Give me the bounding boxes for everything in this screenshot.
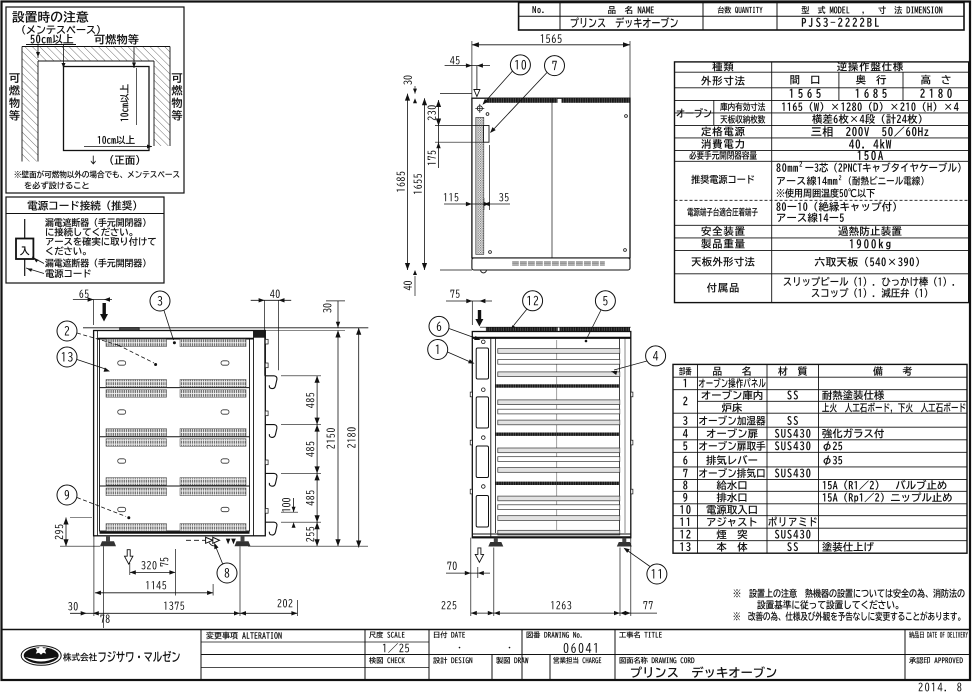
note line1 (734, 589, 965, 599)
note line3 (734, 611, 961, 621)
chimney vent strip (486, 327, 558, 331)
breaker symbol (16, 239, 33, 260)
deck separator (100, 485, 250, 487)
power cord connection box (6, 197, 164, 283)
specification table (675, 62, 969, 303)
delivery label (909, 631, 968, 638)
leader 6 (449, 329, 478, 340)
wall note line1 (15, 170, 180, 178)
callout balloon 13 (57, 347, 77, 367)
shelf support brackets (265, 376, 277, 389)
dim 78 (100, 615, 109, 623)
callout balloon 10 (510, 55, 530, 75)
leader 2 (77, 333, 118, 345)
front body outline (472, 332, 631, 538)
leader 7 (492, 73, 547, 132)
floor line right (248, 545, 368, 547)
front-side marker (91, 155, 139, 165)
adjustable foot (106, 536, 110, 542)
title label (619, 631, 662, 638)
title block (2, 629, 971, 631)
callout balloon 7 (545, 56, 565, 76)
power cord entry arrow (103, 303, 106, 314)
design label (433, 657, 472, 664)
dim 230 (438, 100, 440, 126)
breaker note line3 (46, 237, 156, 246)
rear top-right corner block (254, 331, 266, 338)
oven deck doors (498, 349, 620, 354)
rear oval slots (118, 361, 126, 365)
485 pitch chain (316, 376, 318, 425)
dim 175 (438, 126, 440, 169)
dim line 115/35 (444, 203, 510, 205)
dim 2150 (337, 331, 339, 547)
draw label (496, 657, 528, 664)
deck separator (100, 436, 250, 438)
note line2 (757, 600, 898, 610)
drawing cord label (620, 657, 695, 664)
dim 40 plan front (404, 281, 412, 290)
leader 13 (77, 360, 107, 370)
leader to cord label (26, 268, 44, 274)
10cm min (vertical) (120, 84, 129, 121)
issue date (919, 683, 962, 692)
rear inner panel top edge (98, 338, 254, 340)
combustibles right (vertical) (172, 73, 182, 83)
leader 9 (77, 498, 126, 517)
dim 30 chimney (323, 304, 331, 313)
callout balloon 4 (646, 346, 666, 366)
drain/water valves (186, 539, 206, 541)
dim 75 front (450, 290, 459, 298)
plan left chimney channel (476, 117, 484, 254)
company name main (99, 651, 180, 662)
dim 30 plan (404, 76, 412, 85)
date label (434, 631, 465, 638)
callout balloon 6 (429, 316, 449, 336)
callout balloon 8 (217, 563, 237, 583)
dim 1685 plan depth (407, 94, 409, 270)
dim 1565 plan width (472, 44, 630, 46)
leader 10 (484, 71, 513, 103)
rear vent strips (106, 339, 167, 347)
plan centre split line (551, 98, 553, 258)
breaker note line4 (46, 246, 86, 255)
rear bottom thick band (100, 531, 250, 533)
plan exhaust duct detail (484, 126, 490, 143)
leader 12 (514, 309, 527, 325)
drawing number (564, 643, 597, 653)
hatched wall (top) (38, 47, 170, 62)
callout balloon 3 (150, 291, 170, 311)
dim 2180 (358, 328, 360, 548)
callout balloon 5 (595, 291, 615, 311)
dim 1145 (95, 592, 213, 594)
breaker callout text (45, 259, 145, 268)
45 dim drop line (476, 66, 478, 89)
dim 295 (65, 518, 67, 547)
scale label (369, 631, 404, 638)
dim 75 rear (160, 558, 168, 567)
drawing no label (527, 631, 582, 638)
plan front vent slot (512, 261, 605, 266)
wire below breaker (24, 259, 26, 276)
plan rear 30 ext line (440, 93, 472, 95)
adjustable foot (622, 538, 626, 543)
parts list table (673, 364, 967, 553)
charge label (553, 657, 601, 664)
leader 11 (626, 550, 650, 567)
scale value (383, 643, 409, 653)
company logo (24, 647, 59, 663)
front right column inner (619, 338, 621, 533)
deck divider bands (495, 384, 619, 387)
callout balloon 1 (428, 340, 448, 360)
front door centre line (556, 340, 558, 533)
combustibles label top (94, 34, 138, 45)
wire above breaker (24, 219, 26, 239)
power cord box title (28, 200, 137, 210)
breaker note line2 (46, 227, 132, 236)
leader 1 (448, 352, 472, 363)
ext line 175 (435, 141, 484, 143)
rear chimney top line (83, 327, 368, 329)
name/model table (519, 3, 964, 31)
dim 45 (450, 56, 460, 64)
plan screw holes (486, 113, 489, 116)
breaker note line1 (45, 218, 145, 227)
power cord arrow front (478, 310, 481, 319)
ext line 230 (435, 125, 484, 127)
power inlet symbol (477, 106, 482, 111)
leader 4 (614, 361, 647, 370)
dim 40 bracket (270, 290, 280, 298)
leader 8 (215, 545, 223, 564)
installation notice box (6, 7, 184, 193)
hatched wall (right) (154, 61, 170, 146)
rear bottom dimension lines (93, 536, 95, 616)
oven outline (plan) (64, 67, 150, 151)
callout balloon 2 (57, 321, 77, 341)
leader 3 (164, 311, 174, 341)
deck separator (100, 387, 250, 389)
dim 1375/30/202 (70, 612, 297, 614)
combustibles left (vertical) (9, 73, 19, 83)
rear roof detail (120, 328, 140, 331)
control column panels (476, 348, 488, 379)
rear left inner line (97, 331, 99, 536)
power cord label (45, 269, 90, 278)
front bottom dimensions (470, 538, 472, 616)
breaker label (20, 246, 29, 255)
10cm min (bottom) (98, 135, 135, 144)
dim 1655 (424, 98, 426, 270)
plan body outline (472, 98, 630, 258)
leader to breaker label (32, 257, 44, 264)
rear inner panel (100, 338, 250, 531)
front roof lower edge (472, 337, 631, 339)
wall note line2 (25, 181, 89, 189)
adjustable foot (494, 538, 498, 543)
callout balloon 11 (647, 564, 667, 584)
hatched wall (left) (22, 47, 38, 162)
drain arrow (hollow) (125, 550, 133, 564)
callout balloon 12 (523, 291, 543, 311)
leader 5 (587, 310, 602, 339)
dim 100 (282, 498, 290, 512)
check label (369, 657, 405, 664)
plan rear vent strip (487, 98, 558, 103)
callout balloon 9 (57, 485, 77, 505)
dim 320 (130, 571, 176, 573)
dim 255 (316, 522, 318, 546)
front drain arrow (475, 548, 483, 562)
alteration label (206, 632, 282, 640)
front bottom band (472, 533, 631, 535)
company name prefix (63, 653, 97, 662)
rear right column line (253, 331, 255, 536)
plan front panel (472, 258, 630, 270)
rear body outline (94, 331, 266, 536)
approved label (909, 657, 963, 664)
adjustable foot (241, 536, 245, 542)
dim 65 (79, 290, 88, 298)
dim 70 (447, 562, 456, 570)
front left column inner (490, 338, 492, 538)
drawing title (631, 666, 776, 677)
